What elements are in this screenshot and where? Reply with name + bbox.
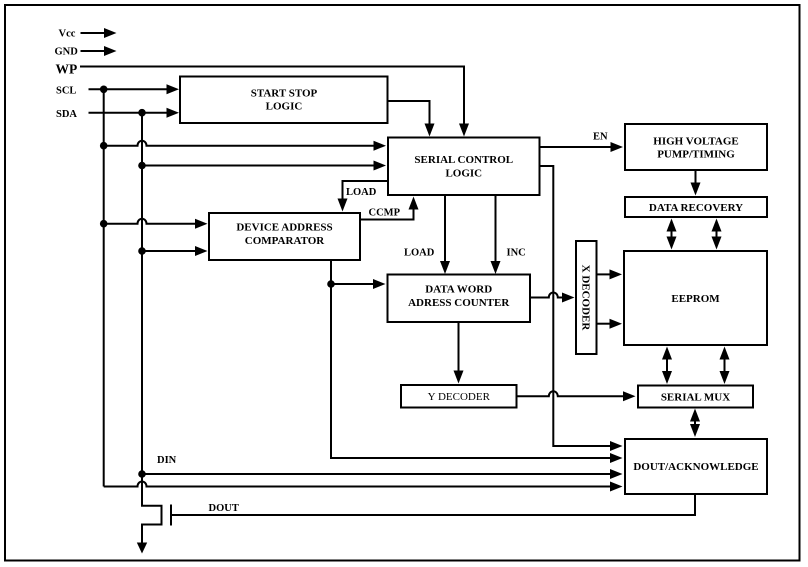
wire serial control INC to data word counter (491, 195, 501, 274)
label SDA (56, 109, 77, 120)
svg-text:SERIAL MUX: SERIAL MUX (661, 392, 730, 404)
node SCL junction (100, 86, 108, 94)
label GND (55, 47, 79, 58)
label Vcc (59, 29, 76, 40)
node SCL bus junction 3 (100, 220, 108, 228)
svg-text:Y DECODER: Y DECODER (428, 391, 491, 403)
node SDA junction (138, 109, 146, 117)
wire x decoder to eeprom lower (597, 319, 623, 329)
wire DOUT from dout/acknowledge to transistor gate (171, 494, 695, 515)
svg-text:HIGH VOLTAGE: HIGH VOLTAGE (653, 136, 738, 148)
box x decoder (576, 241, 597, 354)
svg-text:CCMP: CCMP (369, 208, 401, 219)
box serial control logic (388, 138, 540, 196)
label EN (593, 132, 608, 143)
label INC (507, 248, 526, 259)
wire comparator down to node (330, 260, 332, 284)
box y decoder (401, 385, 517, 408)
wire SCL bus to dout/acknowledge input 4 (104, 482, 623, 492)
svg-text:INC: INC (507, 248, 526, 259)
wire WP to serial control logic (80, 67, 469, 137)
wire node to data word address counter (331, 279, 386, 289)
node SDA bus junction 3 (138, 247, 146, 255)
svg-text:SCL: SCL (56, 86, 76, 97)
wire data recovery eeprom double arrow right (712, 219, 722, 250)
svg-text:ADRESS COUNTER: ADRESS COUNTER (408, 297, 510, 309)
node SDA bus junction 2 (138, 162, 146, 170)
svg-text:EN: EN (593, 132, 608, 143)
svg-text:X DECODER: X DECODER (579, 265, 591, 332)
wire serial control LOAD to device address comparator (338, 181, 389, 212)
wire DIN to dout/acknowledge input 3 (142, 469, 623, 479)
node SCL bus junction 2 (100, 142, 108, 150)
svg-text:LOAD: LOAD (346, 187, 377, 198)
label LOAD (counter) (404, 248, 435, 259)
label SCL (56, 86, 76, 97)
wire node down to dout/acknowledge input 2 (331, 284, 623, 463)
svg-text:PUMP/TIMING: PUMP/TIMING (657, 149, 735, 161)
wire SDA to comparator input 2 (142, 246, 208, 256)
box eeprom (624, 251, 767, 345)
label DOUT (209, 503, 239, 514)
label DIN (157, 455, 177, 466)
wire x decoder to eeprom upper (597, 269, 623, 279)
wire y decoder to serial mux (517, 391, 636, 401)
wire SDA bus vertical (141, 113, 143, 474)
svg-text:GND: GND (55, 47, 79, 58)
wire high voltage pump to data recovery (691, 170, 701, 196)
svg-text:DOUT/ACKNOWLEDGE: DOUT/ACKNOWLEDGE (633, 461, 758, 473)
svg-text:LOGIC: LOGIC (266, 101, 303, 113)
wire SCL bus vertical (103, 89, 105, 486)
box dout/acknowledge (625, 439, 767, 494)
svg-text:LOAD: LOAD (404, 248, 435, 259)
wire data recovery eeprom double arrow left (667, 219, 677, 250)
wire serial control to dout/acknowledge input 1 (540, 166, 623, 451)
wire data word counter to y decoder (454, 322, 464, 384)
box data word adress counter (388, 275, 531, 323)
wire SCL to serial control input 1 (104, 141, 386, 151)
svg-text:DIN: DIN (157, 455, 177, 466)
svg-text:DATA WORD: DATA WORD (425, 284, 492, 296)
label CCMP (369, 208, 401, 219)
wire start stop to serial control logic (388, 101, 435, 137)
wire serial control LOAD to data word counter (440, 195, 450, 274)
svg-text:DOUT: DOUT (209, 503, 239, 514)
label LOAD (comparator) (346, 187, 377, 198)
box device address comparator (209, 213, 360, 260)
wire SDA to start stop logic (89, 108, 180, 118)
transistor output mosfet (137, 474, 171, 554)
node comparator output junction (327, 280, 335, 288)
svg-text:DEVICE ADDRESS: DEVICE ADDRESS (236, 222, 332, 234)
svg-text:EEPROM: EEPROM (671, 293, 720, 305)
box data recovery (625, 197, 767, 217)
svg-text:Vcc: Vcc (59, 29, 76, 40)
label WP (56, 62, 78, 77)
wire serial mux dout double arrow (690, 409, 700, 438)
wire SCL to start stop logic (89, 84, 180, 94)
svg-text:START STOP: START STOP (251, 88, 318, 100)
svg-text:WP: WP (56, 62, 78, 77)
wire data word counter to x decoder (530, 293, 575, 303)
wire eeprom serial mux double arrow left (662, 347, 672, 385)
wire SDA to serial control input 2 (142, 161, 386, 171)
svg-text:COMPARATOR: COMPARATOR (245, 235, 325, 247)
svg-text:DATA RECOVERY: DATA RECOVERY (649, 202, 743, 214)
Vcc arrow (81, 28, 117, 38)
wire SCL to comparator input 1 (104, 219, 208, 229)
svg-text:SDA: SDA (56, 109, 77, 120)
wire eeprom serial mux double arrow right (720, 347, 730, 385)
box high voltage pump/timing (625, 124, 767, 170)
svg-text:SERIAL CONTROL: SERIAL CONTROL (414, 154, 513, 166)
GND arrow (81, 46, 117, 56)
wire comparator CCMP to serial control (360, 197, 419, 220)
box serial mux (638, 386, 753, 408)
node DIN junction (138, 470, 146, 478)
wire serial control EN to high voltage pump (540, 142, 624, 152)
svg-text:LOGIC: LOGIC (445, 168, 482, 180)
box start stop logic (180, 77, 388, 124)
